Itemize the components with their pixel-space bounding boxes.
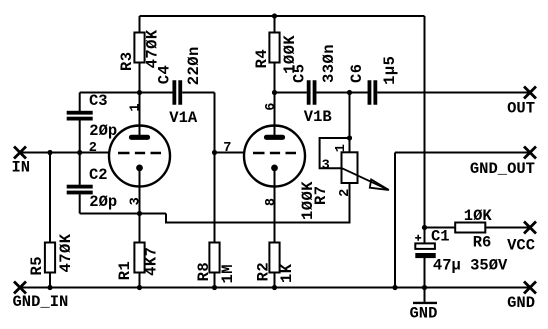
svg-text:C1: C1 [431,228,450,246]
svg-text:C5: C5 [291,63,309,83]
svg-text:R6: R6 [473,234,492,252]
svg-text:V1B: V1B [304,108,332,126]
svg-text:GND: GND [410,304,438,322]
svg-text:OUT: OUT [507,99,535,117]
svg-text:47µ 35ØV: 47µ 35ØV [433,257,508,275]
svg-text:3: 3 [322,158,330,173]
svg-text:R7: R7 [312,185,330,205]
svg-text:R8: R8 [195,262,213,282]
svg-text:1: 1 [334,144,349,152]
svg-text:2Øp: 2Øp [89,193,117,211]
svg-text:GND_OUT: GND_OUT [470,160,535,178]
svg-text:C2: C2 [89,166,108,184]
svg-text:R3: R3 [118,51,136,71]
svg-text:C3: C3 [89,92,108,110]
svg-text:C6: C6 [348,63,366,83]
svg-text:47ØK: 47ØK [143,29,161,68]
svg-text:1: 1 [128,103,143,111]
svg-text:2: 2 [338,189,353,197]
svg-text:47ØK: 47ØK [57,233,75,272]
svg-text:33Øn: 33Øn [320,44,338,83]
svg-text:R4: R4 [253,49,271,69]
svg-text:GND_IN: GND_IN [13,293,69,311]
svg-text:1µ5: 1µ5 [381,56,399,85]
svg-text:2Øp: 2Øp [89,122,117,140]
svg-text:GND: GND [507,294,535,312]
svg-text:2: 2 [89,141,97,156]
svg-text:22Øn: 22Øn [185,46,203,85]
svg-text:1M: 1M [219,264,237,284]
svg-text:3: 3 [129,197,144,205]
svg-text:R1: R1 [116,261,134,281]
svg-text:1ØK: 1ØK [464,207,493,225]
svg-text:IN: IN [12,159,31,177]
svg-text:7: 7 [223,141,231,156]
svg-text:V1A: V1A [169,109,198,127]
svg-text:R2: R2 [254,262,272,282]
svg-text:4K7: 4K7 [142,247,160,276]
svg-text:R5: R5 [28,256,46,276]
svg-text:1K: 1K [278,263,296,283]
svg-text:6: 6 [264,103,279,111]
svg-text:C4: C4 [156,65,174,85]
svg-text:8: 8 [264,198,279,206]
svg-text:VCC: VCC [507,236,535,254]
